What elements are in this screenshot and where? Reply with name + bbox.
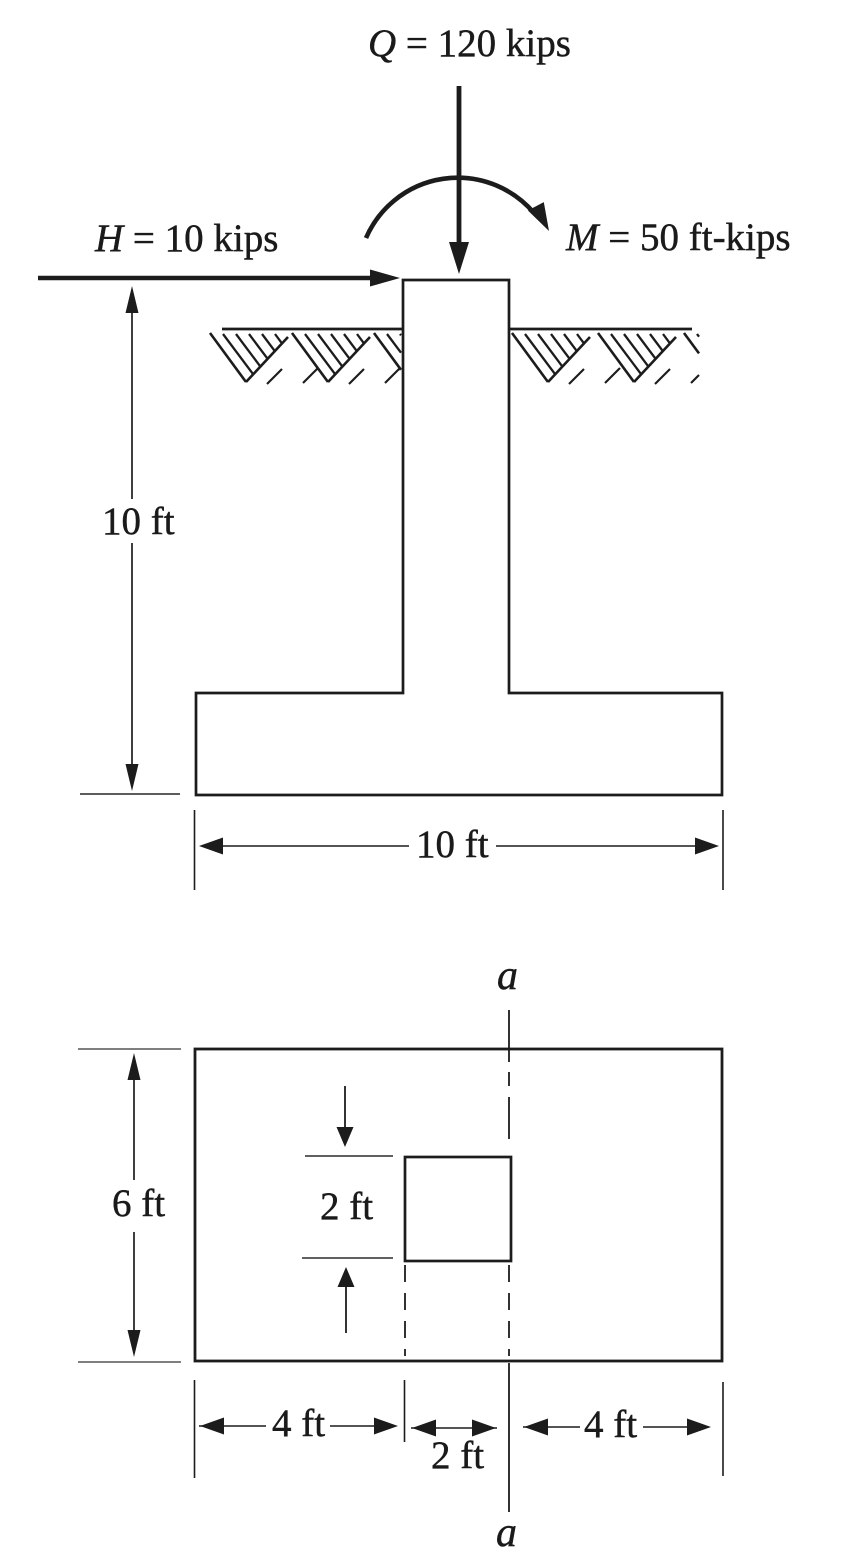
svg-text:4 ft: 4 ft <box>272 1402 325 1445</box>
datum tick at base of footing <box>80 793 180 795</box>
section label a (top) <box>497 953 518 999</box>
soil hatch right of pier <box>512 333 699 384</box>
svg-text:4 ft: 4 ft <box>584 1403 637 1446</box>
dimension 10 ft (footing width, horizontal) <box>195 810 724 890</box>
moment arc M (curved arrow) <box>366 178 549 238</box>
pier and footing outline (T shape) <box>196 280 722 795</box>
dimension 6 ft (plan height) <box>78 1049 181 1362</box>
svg-text:10 ft: 10 ft <box>102 500 175 543</box>
svg-text:M = 50 ft-kips: M = 50 ft-kips <box>565 216 791 259</box>
dimension 2 ft (middle) <box>411 1420 497 1478</box>
label H = 10 kips <box>94 217 278 260</box>
dimension 4 ft (left) <box>199 1402 398 1445</box>
extension lines for bottom dimensions <box>195 1380 724 1478</box>
section label a (bottom) <box>496 1510 517 1556</box>
dimension 4 ft (right) <box>523 1403 711 1446</box>
soil hatch left of pier <box>210 333 401 384</box>
dimension 2 ft (column size, vertical) <box>302 1086 393 1333</box>
svg-text:2 ft: 2 ft <box>320 1185 373 1228</box>
ground surface line right <box>510 328 692 331</box>
section line a-a (vertical centerline) <box>508 1010 510 1512</box>
load arrow Q (vertical) <box>449 86 469 274</box>
svg-text:10 ft: 10 ft <box>416 823 489 866</box>
svg-text:H = 10 kips: H = 10 kips <box>94 217 278 260</box>
label Q = 120 kips <box>368 22 571 65</box>
svg-text:Q = 120 kips: Q = 120 kips <box>368 22 571 65</box>
svg-text:a: a <box>496 1510 517 1556</box>
svg-text:6 ft: 6 ft <box>112 1182 165 1225</box>
svg-text:2 ft: 2 ft <box>431 1434 484 1477</box>
svg-text:a: a <box>497 953 518 999</box>
footing plan rectangle <box>195 1049 722 1361</box>
column plan square 2ft x 2ft <box>405 1157 511 1261</box>
ground surface line left <box>222 328 402 331</box>
load arrow H (horizontal) <box>38 270 400 287</box>
dimension 10 ft (depth, vertical) <box>102 286 175 791</box>
label M = 50 ft-kips <box>565 216 791 259</box>
dashed projection line below square (left) <box>404 1265 406 1356</box>
